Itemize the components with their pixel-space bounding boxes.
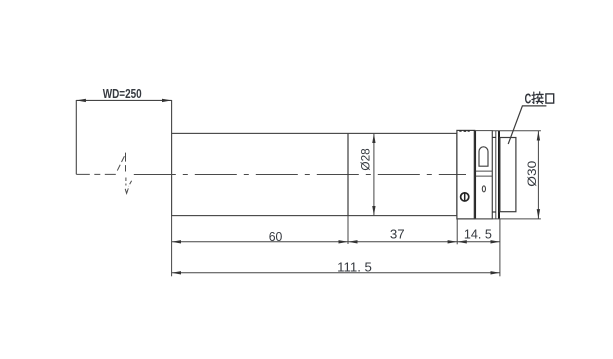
svg-text:60: 60	[269, 229, 283, 244]
extension line left (WD datum)	[75, 100, 77, 174]
svg-text:37: 37	[390, 227, 405, 242]
set screw	[461, 193, 469, 201]
leader line C-mount	[508, 106, 546, 144]
centerline left segment	[76, 173, 116, 175]
centerline main (axis)	[134, 174, 466, 176]
section divider line	[347, 133, 349, 215]
small oval detail	[482, 186, 485, 192]
hanzi kou (interface char 2)	[546, 94, 554, 103]
dimension 111.5	[172, 272, 500, 274]
dimension WD=250	[76, 99, 171, 101]
barrel shoulder dark line	[498, 131, 500, 219]
extension line WD right / body corner	[171, 100, 173, 133]
dimension 37	[348, 241, 457, 243]
hanzi jie (interface char 1)	[532, 92, 543, 104]
knurl marks	[459, 130, 469, 132]
svg-text:C: C	[525, 91, 532, 108]
svg-text:14. 5: 14. 5	[464, 227, 492, 242]
mid flange panel	[475, 131, 492, 219]
dimension Ø30	[537, 131, 539, 219]
thick divider ring edge	[474, 130, 476, 219]
extension line left end	[171, 216, 173, 277]
lock ring lines	[491, 131, 493, 219]
extension lines to Ø30	[492, 130, 541, 132]
axis break symbol	[116, 153, 131, 194]
extension line at 60/37 boundary	[347, 216, 349, 244]
extension line right end	[499, 219, 501, 276]
lock ring ticks	[492, 136, 496, 138]
C-mount barrel	[500, 138, 516, 212]
svg-text:Ø30: Ø30	[525, 160, 539, 186]
body cylinder Ø28	[172, 133, 457, 215]
focus ring (knurled)	[457, 130, 475, 219]
dimension 14.5	[457, 241, 500, 243]
thumbscrew arch	[479, 147, 488, 166]
dimension Ø28	[373, 134, 375, 216]
extension line at 37/14.5 boundary	[456, 219, 458, 244]
joint band lines	[476, 170, 492, 172]
svg-text:WD=250: WD=250	[103, 86, 142, 101]
svg-text:111. 5: 111. 5	[337, 260, 372, 275]
dimension 60	[172, 241, 348, 243]
svg-text:Ø28: Ø28	[361, 148, 373, 170]
